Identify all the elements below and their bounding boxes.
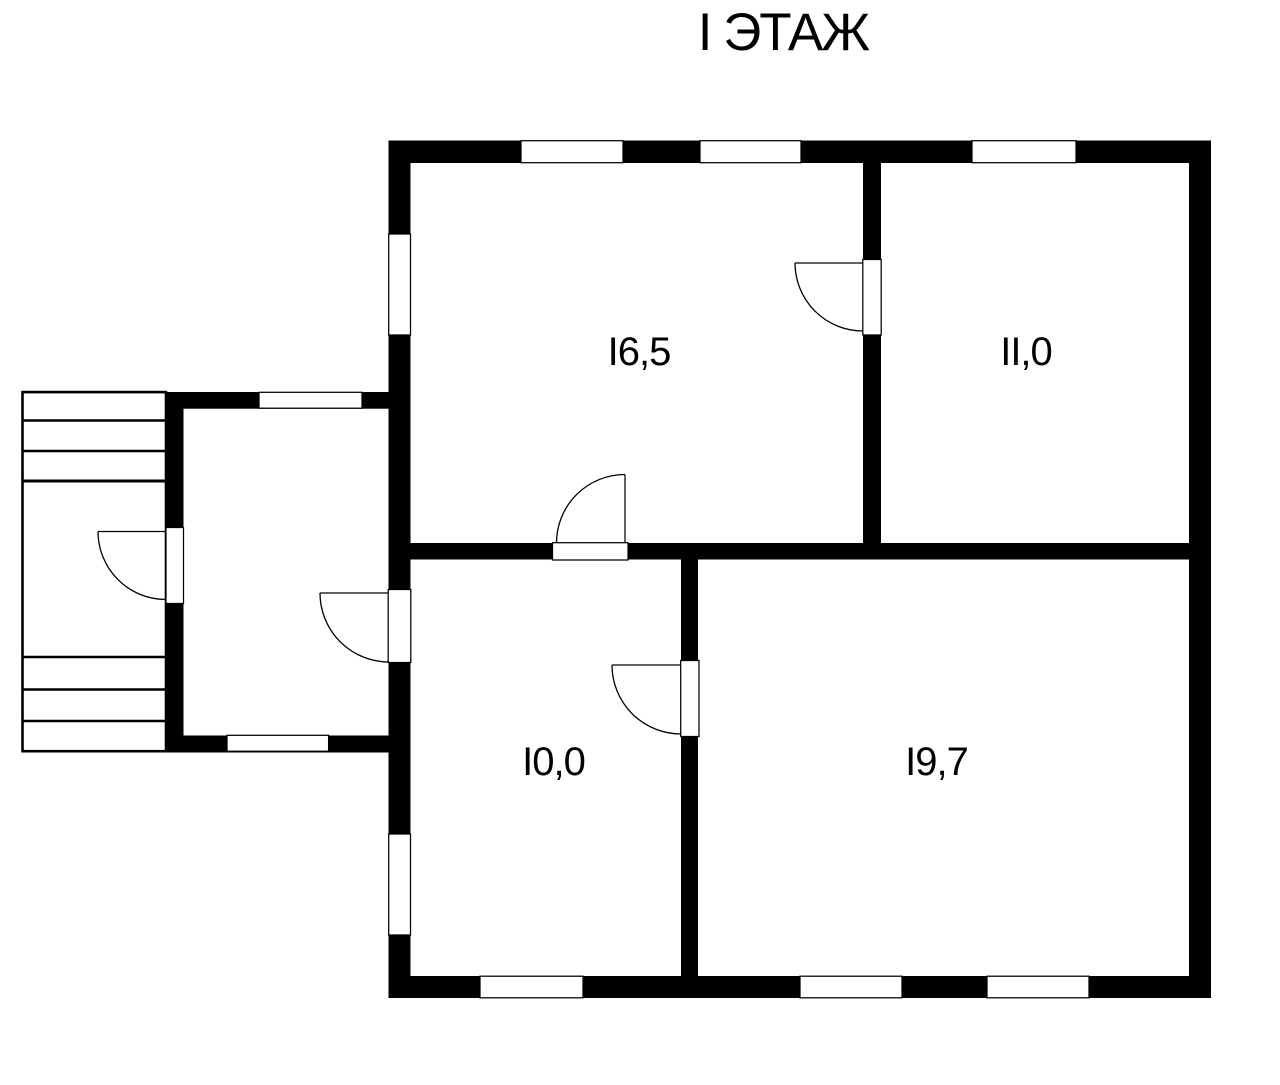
door D4 leaf (624, 475, 626, 543)
stair tread line 3 (22, 480, 166, 483)
stair tread line 5 (22, 688, 166, 691)
svg-text:I0,0: I0,0 (522, 740, 585, 784)
wall: annex left (166, 392, 184, 753)
window W9 annex top wall (259, 392, 362, 408)
door D5 swing arc (612, 665, 681, 734)
window W1 top wall (521, 141, 623, 163)
door D1 panel: entry door in annex left wall (166, 528, 184, 604)
window W6 bottom wall (480, 976, 583, 998)
stair tread line 1 (22, 419, 166, 422)
door D1 swing arc (98, 532, 166, 600)
wall: main top (389, 141, 1212, 164)
window W8 bottom wall (987, 976, 1089, 998)
wall: interior horizontal between upper and lower rooms (400, 543, 1189, 560)
wall: interior vertical between rooms 16,5 and 11,0 (863, 160, 881, 545)
door D4 swing arc (557, 475, 626, 544)
svg-text:II,0: II,0 (1000, 330, 1052, 374)
wall: interior vertical between rooms 10,0 and 19,7 (681, 550, 698, 976)
svg-text:I6,5: I6,5 (608, 330, 671, 374)
stair tread line 6 (22, 720, 166, 723)
door D3 swing arc (795, 263, 863, 331)
window W2 top wall (700, 141, 801, 163)
wall: main right (1189, 141, 1211, 999)
stairs outline (23, 392, 167, 751)
window W3 top wall (972, 141, 1076, 163)
door D2 leaf (320, 592, 388, 594)
wall: main bottom (389, 976, 1212, 998)
stair tread line 4 (22, 656, 166, 659)
wall: annex top (166, 392, 410, 409)
window W5 left wall lower (389, 834, 411, 935)
wall: annex bottom (166, 736, 410, 753)
wall: main left (389, 141, 411, 999)
stair tread line 2 (22, 450, 166, 453)
door D3 panel: room 16,5 to room 11,0 (863, 260, 881, 336)
svg-text:I ЭТАЖ: I ЭТАЖ (698, 3, 871, 62)
window W7 bottom wall (800, 976, 902, 998)
door D2 swing arc (320, 593, 389, 662)
door D1 leaf (98, 531, 166, 533)
door D3 leaf (795, 262, 863, 264)
door D5 panel: room 10,0 to room 19,7 (681, 661, 699, 737)
window W10 annex bottom wall (227, 735, 329, 751)
door D4 panel: room 16,5 to room 10,0 (553, 543, 629, 560)
window W4 left wall upper (389, 234, 411, 335)
door D5 leaf (612, 664, 681, 666)
svg-text:I9,7: I9,7 (905, 740, 968, 784)
door D2 panel: annex to room 10,0 (388, 590, 411, 663)
